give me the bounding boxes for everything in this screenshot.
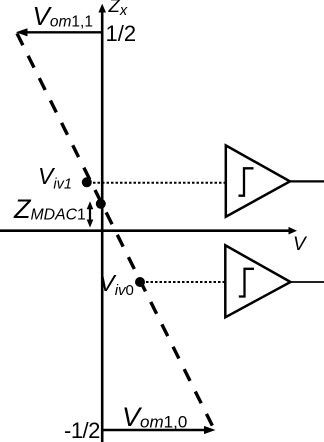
- svg-text:Vom1,1: Vom1,1: [33, 1, 93, 31]
- node ZMDAC1 offset (dot on vertical axis): [96, 199, 106, 209]
- arrow Vom1,1 (top output level arrow): [16, 28, 102, 36]
- svg-text:Zx: Zx: [108, 0, 128, 19]
- svg-text:Viv1: Viv1: [38, 163, 72, 193]
- svg-text:V: V: [293, 234, 308, 255]
- arrow Vom1,0 (bottom output level arrow): [102, 426, 216, 434]
- step symbol inside U1: [239, 168, 254, 195]
- MDAC residue transfer line (dashed): [17, 33, 215, 430]
- svg-text:-1/2: -1/2: [64, 418, 100, 442]
- svg-text:Viv0: Viv0: [99, 270, 134, 299]
- wire dotted Viv1 to comparator U1: [93, 182, 225, 184]
- step symbol inside U2: [239, 269, 254, 297]
- comparator U1 (top): [226, 145, 290, 216]
- Z axis (vertical): [98, 4, 106, 442]
- wire dotted Viv0 to comparator U2: [146, 281, 225, 283]
- wire output of U2: [291, 281, 324, 283]
- V axis (horizontal): [0, 227, 297, 235]
- wire output of U1: [290, 180, 324, 182]
- svg-text:Vom1,0: Vom1,0: [122, 402, 187, 432]
- svg-text:ZMDAC1: ZMDAC1: [13, 194, 86, 224]
- node Viv0 (dot on transfer line): [135, 277, 145, 287]
- comparator U2 (bottom): [225, 245, 290, 317]
- node Viv1 (dot on transfer line): [82, 177, 92, 187]
- arrow ZMDAC1 (double-headed offset marker): [87, 201, 94, 227]
- svg-text:1/2: 1/2: [106, 21, 137, 46]
